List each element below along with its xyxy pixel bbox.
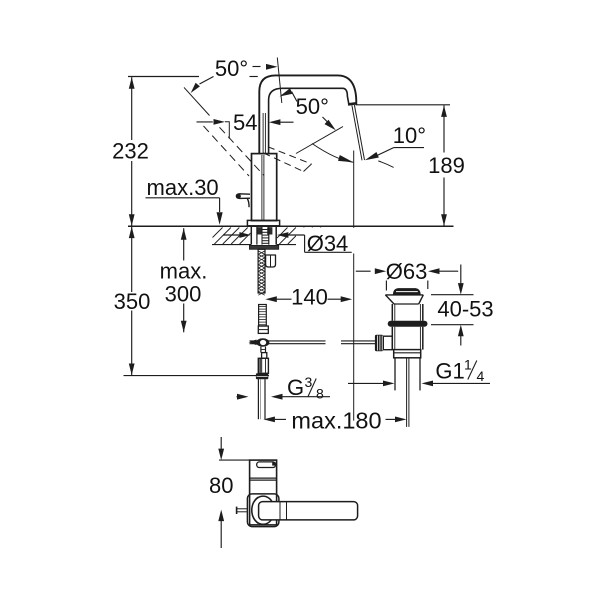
top view body separation lines <box>250 478 277 480</box>
outlet stream tilted 10 degrees line a <box>352 105 362 160</box>
supply pipe below connector <box>258 379 265 419</box>
thread label G1 1/4 <box>435 356 484 384</box>
rotated spout outlet bracket near 54 dimension <box>225 122 229 139</box>
svg-text:8: 8 <box>316 386 324 402</box>
faucet body <box>252 154 277 221</box>
mounting shank through countertop <box>251 227 276 245</box>
dimension 232 vertical line and arrows <box>129 77 135 226</box>
dimension text max.300 <box>160 258 208 306</box>
drain flange cone <box>385 295 423 304</box>
top view lever handle bar <box>259 502 358 520</box>
drain body lower section <box>392 327 423 350</box>
rotated spout right end cap dash <box>304 164 312 172</box>
spout axis extension line above corner <box>277 58 282 104</box>
angle label 10 deg <box>393 123 426 148</box>
horizontal pop-up rod <box>250 341 384 344</box>
dimension max.30 label <box>147 175 219 200</box>
small arc right of stream <box>378 161 393 168</box>
angle 50 deg center leader arrow <box>323 117 336 130</box>
dimension text 80 <box>209 473 233 498</box>
svg-text:3: 3 <box>305 374 313 390</box>
drain body upper section <box>392 304 423 321</box>
washer under countertop <box>249 245 278 249</box>
angle 50 deg upper leaders <box>191 64 278 93</box>
dimension 140 line and arrows <box>265 296 352 302</box>
outlet stream tilted 10 degrees line b <box>354 105 364 160</box>
svg-text:10°: 10° <box>393 123 426 148</box>
countertop hatching right <box>277 228 326 245</box>
side lever handle on body <box>236 194 250 207</box>
dimension text max.180 <box>291 407 381 433</box>
dimension max.300 vertical line and arrows <box>181 228 187 332</box>
dimension 189 extension line at outlet level <box>356 104 450 106</box>
dimension text 189 <box>428 153 465 178</box>
svg-text:189: 189 <box>428 153 465 178</box>
rotated spout position left, axis reference line <box>184 87 210 115</box>
base plate of faucet <box>247 220 279 225</box>
spout swivel arc to outlet axis <box>312 144 353 163</box>
angle 50 deg center rotated axis line <box>296 127 343 154</box>
svg-text:max.: max. <box>160 258 208 283</box>
top view spout outlet slot <box>257 462 276 468</box>
svg-text:4: 4 <box>477 368 485 384</box>
dimension diameter 63 extension lines <box>386 281 427 291</box>
dimension max.30 leader and arrow <box>146 198 223 225</box>
top view rounded base plate <box>247 494 279 527</box>
drain knurled adjuster knob <box>375 335 383 352</box>
rotated spout position left, dashed outline lower <box>204 126 250 176</box>
dimension 80 extension line at body top <box>219 459 250 461</box>
cartridge stem lines inside spout <box>263 113 265 154</box>
rotated spout position left, dashed outline upper <box>220 127 265 175</box>
angle label 50 deg upper left <box>215 56 248 81</box>
svg-text:54: 54 <box>233 110 257 135</box>
drain tailpiece nut band <box>394 350 421 358</box>
svg-text:1: 1 <box>464 356 472 372</box>
dimension text 54 <box>233 110 257 135</box>
svg-text:50°: 50° <box>215 56 248 81</box>
dimension text 140 <box>291 284 328 309</box>
angle 10 deg leader and arrow <box>365 148 424 161</box>
faucet spout tube (front view) <box>259 75 356 154</box>
dimension max.180 line and arrows <box>263 417 406 423</box>
dimension G1 1/4 line and arrows <box>348 381 490 387</box>
outlet axis vertical extension line <box>353 151 355 421</box>
drain pop-up waste dome cap <box>393 288 421 295</box>
dimension 54 line and arrows <box>197 119 294 125</box>
dimension diameter 34 arrows at shank <box>223 228 355 254</box>
svg-text:80: 80 <box>209 473 233 498</box>
dimension 80 vertical line and arrows <box>218 437 224 548</box>
svg-text:max.30: max.30 <box>147 175 219 200</box>
threaded mounting stud with cross hatch <box>258 249 265 295</box>
svg-text:G1: G1 <box>435 359 464 384</box>
dimension text diameter 34 <box>307 231 349 256</box>
flexible supply hose segment <box>259 305 267 327</box>
svg-text:300: 300 <box>165 281 202 306</box>
svg-text:50°: 50° <box>296 94 329 119</box>
dimension diameter 34 leader step and underline <box>305 235 352 252</box>
dimension text 350 <box>114 289 151 314</box>
pop-up rod ball joint <box>256 338 269 346</box>
ball joint stem <box>261 347 266 353</box>
drain side port for rod <box>383 336 392 350</box>
thread label G 3/8 <box>287 374 324 402</box>
drain rubber o-ring gasket <box>388 321 428 327</box>
dimension text 232 <box>112 138 149 163</box>
drain tail pipe outer walls <box>395 358 420 391</box>
dimension text 40-53 <box>437 296 493 321</box>
pop-up rod left finial <box>249 340 257 346</box>
countertop surface line <box>128 225 454 227</box>
drain tail pipe inner lines <box>407 358 409 427</box>
angle label 50 deg center <box>296 94 329 119</box>
svg-text:232: 232 <box>112 138 149 163</box>
countertop underside line left of shank <box>212 244 251 246</box>
svg-text:140: 140 <box>291 284 328 309</box>
dimension 40-53 reference lines <box>431 295 474 325</box>
countertop hatching left <box>213 228 251 245</box>
dimension 232 extension line at spout top <box>128 76 258 78</box>
dimension G 3/8 arrows <box>237 394 331 400</box>
dimension 189 vertical line and arrows <box>441 105 447 225</box>
angle 50 deg center second arrow at spout corner <box>280 88 298 101</box>
dimension text diameter 63 <box>386 259 428 284</box>
mounting nut beside stud <box>266 255 276 267</box>
top view lever dome circle <box>252 496 275 524</box>
rotated spout position right, dashed outline upper <box>268 147 312 164</box>
dimension 350 bottom reference line <box>124 375 270 377</box>
rotated spout position right, dashed outline lower <box>264 153 304 172</box>
top view left pin nub <box>237 507 248 514</box>
countertop underside line right of shank <box>277 244 328 246</box>
svg-text:Ø63: Ø63 <box>386 259 428 284</box>
dimension 40-53 arrows <box>458 265 464 346</box>
spout outlet nozzle end face <box>348 103 357 104</box>
dimension 350 vertical line and arrows <box>129 227 135 375</box>
svg-text:40-53: 40-53 <box>437 296 493 321</box>
svg-text:Ø34: Ø34 <box>307 231 349 256</box>
angle valve connector body <box>258 353 268 374</box>
top view faucet body outline <box>250 460 277 525</box>
svg-text:max.180: max.180 <box>291 407 381 433</box>
svg-text:350: 350 <box>114 289 151 314</box>
hose end fitting <box>258 326 268 333</box>
G 3/8 connection nut <box>256 373 268 379</box>
dimension diameter 63 line and arrows <box>356 268 458 274</box>
